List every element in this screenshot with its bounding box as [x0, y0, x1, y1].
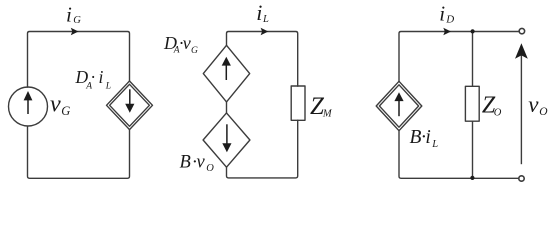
arrow inside vG circle [27, 99, 29, 114]
arrowhead iD on wire [443, 28, 451, 36]
svg-text:L: L [262, 14, 269, 25]
wire: left loop bottom [28, 126, 130, 178]
label iG [66, 2, 81, 26]
wire: middle loop top [227, 32, 298, 87]
svg-text:v: v [197, 152, 206, 172]
svg-text:O: O [494, 108, 502, 119]
dependent source DA·iL outer diamond [107, 81, 153, 130]
dependent source DA·vG diamond [203, 45, 249, 102]
label iL [256, 0, 269, 25]
junction dot top [471, 29, 475, 33]
label ZM [310, 93, 333, 120]
label ZO [482, 93, 502, 119]
arrowhead iL on wire [261, 28, 269, 36]
svg-text:i: i [425, 127, 430, 148]
source vG circle [9, 87, 48, 126]
wire: between middle diamonds [226, 102, 228, 113]
arrow inside B·vO diamond (down) [226, 124, 228, 144]
wire: ZO branch [472, 32, 474, 179]
output terminal bottom [519, 176, 524, 181]
dependent source DA·iL inner diamond [110, 84, 150, 126]
label B·iL [410, 127, 439, 150]
wire: middle loop bottom [227, 120, 298, 178]
svg-text:L: L [105, 82, 111, 92]
dependent source B·vO diamond [203, 113, 250, 167]
svg-text:i: i [256, 0, 262, 25]
label iD [439, 1, 454, 25]
output terminal top [519, 28, 524, 33]
svg-text:B: B [410, 127, 422, 148]
svg-text:v: v [50, 91, 61, 117]
svg-text:O: O [206, 163, 214, 174]
arrowhead iG on wire [71, 28, 79, 36]
svg-text:G: G [73, 15, 81, 26]
svg-text:i: i [99, 67, 104, 87]
label DA·vG [163, 33, 198, 56]
svg-text:v: v [528, 92, 539, 117]
impedance ZO rectangle [465, 86, 479, 121]
svg-text:G: G [191, 46, 198, 56]
svg-text:i: i [66, 2, 72, 26]
svg-text:M: M [322, 108, 333, 119]
svg-text:O: O [539, 106, 548, 118]
arrow inside B·iL diamond (up) [398, 100, 400, 116]
wire: left loop top [28, 32, 130, 88]
dependent source B·iL inner diamond [379, 85, 418, 127]
junction dot bottom [470, 176, 474, 180]
label vO [528, 92, 548, 118]
svg-text:L: L [431, 139, 438, 150]
wire: right loop bottom [399, 131, 518, 179]
label B·vO [180, 152, 215, 174]
svg-text:D: D [445, 14, 454, 26]
arrow inside DA·iL diamond (down) [129, 89, 131, 105]
label DA·iL [75, 67, 111, 92]
vO arrowhead [515, 43, 528, 59]
svg-text:i: i [439, 1, 445, 25]
svg-text:G: G [61, 104, 70, 118]
vO measure line [520, 52, 522, 164]
impedance ZM rectangle [291, 86, 305, 120]
svg-text:B: B [180, 152, 191, 172]
arrow inside DA·vG diamond (up) [225, 64, 227, 80]
svg-text:v: v [183, 33, 191, 53]
wire: right loop top [399, 32, 518, 82]
label vG [50, 91, 70, 118]
dependent source B·iL outer diamond [376, 81, 422, 130]
svg-text:·: · [91, 67, 95, 87]
